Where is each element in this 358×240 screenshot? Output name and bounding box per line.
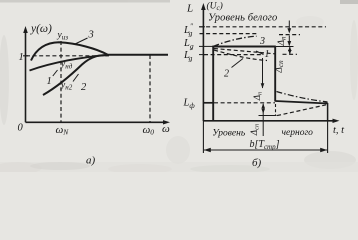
dashed white level line B	[200, 33, 258, 35]
x-axis right plot	[203, 119, 339, 123]
dimension b[Tstr] double arrow	[204, 148, 327, 152]
dashed vertical at omega_0	[149, 55, 151, 122]
svg-text:0: 0	[18, 123, 24, 134]
pulse right edge	[274, 47, 276, 102]
sag dashed line 1	[214, 49, 275, 54]
axis extension right for dimension	[327, 121, 329, 153]
pulse left edge	[212, 47, 214, 122]
tick L_g	[199, 45, 213, 47]
svg-text:б): б)	[252, 157, 262, 169]
svg-text:Уровень: Уровень	[212, 129, 246, 139]
short dashes L'g right	[283, 53, 298, 55]
svg-text:а): а)	[86, 155, 96, 167]
y-axis right plot	[201, 3, 206, 121]
right step down	[327, 103, 329, 121]
curve 3 (top)	[31, 42, 108, 60]
undershoot dashed recovery	[277, 105, 328, 116]
overshoot dash-dot curve 3	[213, 36, 256, 46]
L_f dashed reference	[214, 102, 275, 104]
delta_p top arrow	[287, 21, 291, 47]
dashed level 1 line	[26, 55, 109, 57]
leader to label 1	[256, 51, 264, 55]
delta_sp right small arrow	[288, 47, 292, 54]
svg-text:ω: ω	[162, 123, 170, 135]
tick L''g	[199, 26, 205, 28]
leader to 3	[74, 38, 88, 45]
pulse top tick extension	[276, 46, 294, 48]
dashed pulse edge below black level	[275, 104, 277, 116]
tick L'g	[199, 54, 205, 56]
svg-text:y(ω): y(ω)	[30, 23, 52, 35]
svg-text:Уровень белого: Уровень белого	[208, 13, 277, 24]
curve 2 (bottom)	[43, 55, 108, 95]
svg-text:1: 1	[265, 49, 270, 60]
middle lower arrow	[261, 103, 265, 136]
dashed L'g level	[204, 54, 262, 56]
leader to 1	[53, 70, 58, 76]
svg-text:3: 3	[88, 30, 94, 41]
svg-text:черного: черного	[282, 128, 314, 138]
svg-text:1: 1	[19, 52, 24, 63]
L_f porch	[203, 102, 213, 104]
merged flat line	[106, 54, 168, 56]
tick at 1	[23, 55, 28, 57]
svg-text:2: 2	[81, 82, 87, 93]
x-axis left plot	[26, 120, 171, 124]
black level after pulse	[275, 101, 328, 104]
leader to 2	[73, 74, 79, 82]
axis extension left for dimension	[202, 121, 204, 153]
overshoot end dashes	[279, 34, 300, 36]
undershoot tick	[259, 115, 277, 117]
svg-text:L: L	[186, 3, 193, 15]
leader to label 2	[232, 59, 244, 68]
pulse top	[212, 45, 275, 47]
paper background	[0, 0, 358, 172]
svg-text:t, t: t, t	[333, 125, 345, 136]
middle upper arrow	[261, 58, 265, 89]
curve 1 (middle)	[30, 55, 108, 71]
smear dash-dot tail	[277, 92, 328, 103]
sag dashed curve 2	[214, 50, 267, 61]
svg-text:3: 3	[259, 36, 265, 47]
svg-text:1: 1	[47, 76, 52, 87]
dashed white level line A	[200, 26, 327, 28]
y-axis left plot	[23, 26, 28, 122]
dashed vertical at omega_N	[60, 41, 62, 122]
svg-text:(Uc): (Uc)	[207, 1, 223, 13]
svg-text:2: 2	[224, 69, 229, 80]
